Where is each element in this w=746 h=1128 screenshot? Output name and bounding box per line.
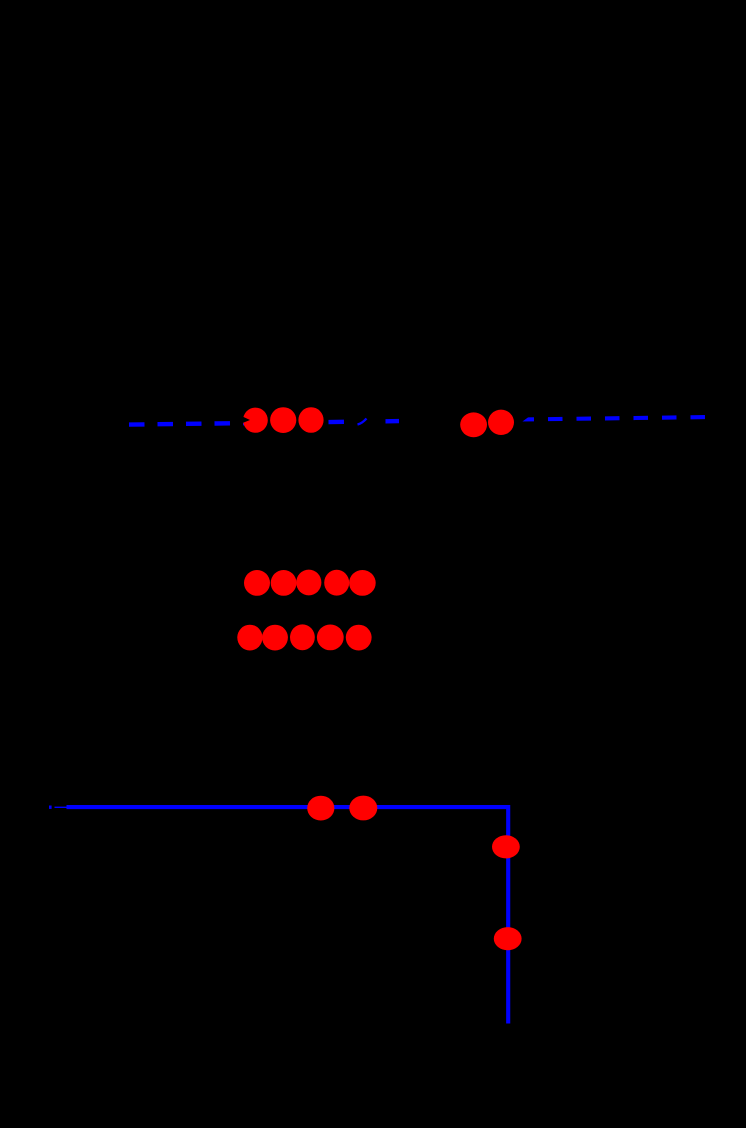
electron dot B2 on band edge [349, 796, 377, 821]
electron dot D5 on donor level [488, 410, 514, 435]
electron dot D1 on donor level [243, 408, 268, 433]
blue crescent fragment of covered dash [358, 419, 367, 425]
electron row 2 dot 3 [290, 624, 315, 650]
band edge solid line: left stub fragment [49, 806, 52, 809]
electron row 1 dot 5 [349, 570, 376, 596]
dashed donor level line (right segment) [520, 417, 706, 419]
electron dot D2 on donor level [270, 407, 296, 433]
band edge solid line (horizontal then vertical drop) [67, 807, 509, 1023]
electron dot V2 on vertical band edge [494, 927, 522, 950]
electron row 1 dot 4 [324, 570, 349, 596]
dashed donor level line (left segment) [129, 421, 399, 425]
electron row 2 dot 1 [237, 625, 262, 651]
black cover over hidden dash (x 357-373) [356, 410, 375, 430]
electron row 2 dot 4 [317, 625, 344, 651]
electron dot B1 on band edge [307, 796, 334, 821]
electron row 1 dot 1 [244, 570, 270, 596]
electron row 1 dot 2 [271, 570, 297, 596]
electron dot D3 on donor level [298, 407, 323, 433]
band edge solid line: thin sliver fragment [55, 807, 67, 808]
electron row 1 dot 3 [296, 570, 321, 596]
black wedge over right-segment first dash [519, 413, 534, 424]
electron dot D4 on donor level [460, 412, 487, 437]
electron row 2 dot 2 [262, 625, 288, 651]
electron dot V1 on vertical band edge [492, 835, 520, 858]
black notch over electron dot D1 [243, 417, 251, 424]
electron row 2 dot 5 [346, 625, 372, 651]
